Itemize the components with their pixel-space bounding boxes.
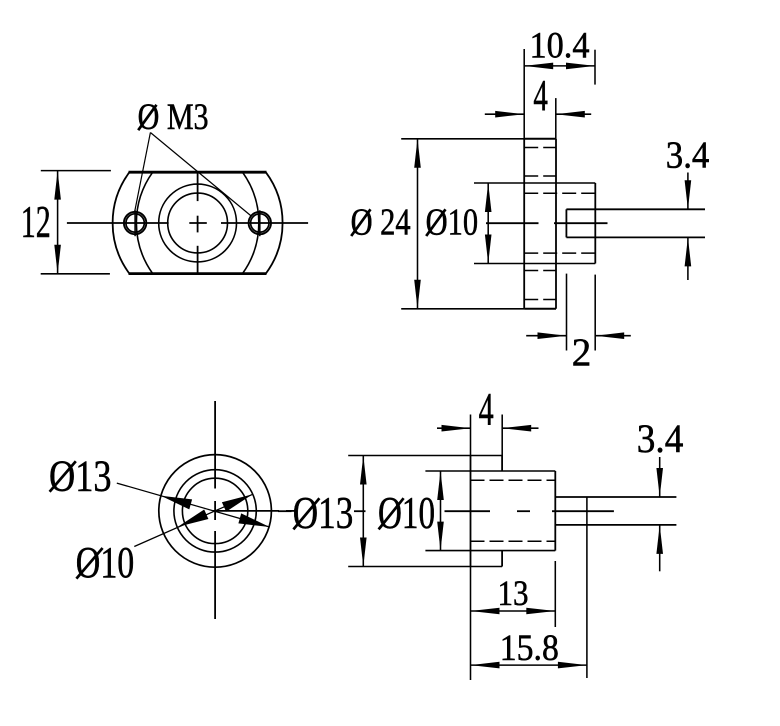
side view 2: centerline dash a bbox=[278, 510, 292, 512]
dim 4 bottom: right tail bbox=[502, 427, 538, 429]
front view: vertical centerline center dash bbox=[197, 216, 199, 233]
dim 3.4 bottom: down arrow bbox=[656, 468, 663, 497]
dim 12: top extension line bbox=[41, 170, 111, 172]
dim D13 bottom: bottom arrow bbox=[360, 538, 367, 567]
dim D24: bottom extension line bbox=[401, 308, 524, 310]
svg-text:3.4: 3.4 bbox=[666, 134, 710, 176]
label D13 left: arrow upper-left bbox=[161, 496, 192, 510]
front view: horizontal centerline center dash bbox=[189, 222, 207, 224]
svg-text:12: 12 bbox=[21, 196, 51, 247]
dim 4 bottom: right extension line bbox=[501, 415, 503, 456]
dim 4 bottom: left tail bbox=[437, 427, 471, 429]
dim 3.4 top: lower segment bbox=[687, 237, 689, 280]
dim D24: dimension line bbox=[417, 139, 419, 309]
side view: centerline right segment bbox=[554, 222, 608, 224]
dim 3.4 bottom: lower segment bbox=[659, 525, 661, 571]
front view: inner left arc of flange crescent bbox=[136, 172, 152, 273]
svg-text:3.4: 3.4 bbox=[637, 416, 684, 461]
svg-text:O10: O10 bbox=[76, 539, 135, 587]
side view: M3 hole hidden line bottom-1 bbox=[524, 270, 556, 272]
side view 2: screw shaft bottom line bbox=[555, 524, 676, 526]
dim 4 top: left tail bbox=[485, 113, 524, 115]
dim 4 top: right tail bbox=[556, 113, 591, 115]
svg-text:15.8: 15.8 bbox=[500, 627, 559, 668]
dim D13 bottom: top arrow bbox=[360, 456, 367, 485]
dim 10.4: left arrow bbox=[524, 63, 553, 70]
side view 2: flange top edge with D13 extension bbox=[348, 455, 502, 457]
dim 3.4 top: upper segment bbox=[687, 173, 689, 210]
front view: horizontal centerline right segment bbox=[221, 222, 308, 224]
dim 4 bottom: left extension line bbox=[470, 415, 472, 456]
svg-text:4: 4 bbox=[479, 384, 494, 436]
side view: screw end face bbox=[565, 209, 567, 237]
dim 4 bottom: right arrow bbox=[502, 425, 531, 432]
dim D24: bottom arrow bbox=[414, 280, 421, 309]
dim D10 bottom: top arrow bbox=[437, 471, 444, 500]
dim 4 bottom: left arrow bbox=[442, 425, 471, 432]
dim 12: bottom arrow bbox=[54, 245, 61, 274]
side view: bore hidden line bottom bbox=[524, 252, 595, 254]
front view: right M3 hole vertical tick bbox=[259, 210, 261, 236]
front view: right M3 hole inner circle bbox=[251, 214, 269, 232]
round view: middle circle D10 bbox=[174, 470, 256, 552]
side view 2: body bottom edge with D10 extension bbox=[425, 550, 555, 552]
dim 2: right tail bbox=[595, 335, 631, 337]
side view: centerline left segment bbox=[486, 222, 539, 224]
side view: bore hidden line top bbox=[524, 192, 595, 194]
dim 2: right extension line bbox=[594, 275, 596, 351]
dim 4 top: left arrow bbox=[495, 111, 524, 118]
dim 13: right arrow bbox=[526, 608, 555, 615]
front view: horizontal centerline left segment bbox=[67, 222, 169, 224]
dim 13: left arrow bbox=[471, 608, 500, 615]
side view 2: step top vertical bbox=[501, 456, 503, 472]
dim D10 bottom: dimension line bbox=[440, 471, 442, 551]
round view: horizontal centerline right segment bbox=[213, 510, 279, 512]
dim D10 top: dimension line bbox=[487, 183, 489, 264]
dim 10.4: right arrow bbox=[566, 63, 595, 70]
dim 13: left extension line bbox=[470, 567, 472, 628]
round view: vertical centerline bottom segment bbox=[214, 531, 216, 619]
dim 13: right extension line bbox=[554, 561, 556, 627]
side view 2: bore hidden line bottom bbox=[471, 540, 556, 542]
side view 2: body top edge with D10 extension bbox=[425, 470, 555, 472]
svg-text:O13: O13 bbox=[293, 488, 354, 538]
dim 15.8: right arrow bbox=[558, 662, 587, 669]
side view: hub right edge bbox=[594, 183, 596, 264]
side view: flange bottom edge bbox=[524, 308, 556, 310]
dim 2: left extension line bbox=[566, 274, 568, 351]
front view: left M3 hole inner circle bbox=[126, 214, 144, 232]
dim 12: top arrow bbox=[54, 171, 61, 200]
dim 15.8: left arrow bbox=[471, 662, 500, 669]
round view: vertical centerline center dash bbox=[214, 501, 216, 520]
dim D10 top: bottom arrow bbox=[485, 235, 492, 264]
dim 15.8: dimension line bbox=[471, 664, 587, 666]
front view: hub circle D13 bbox=[159, 184, 237, 262]
front view: left M3 hole vertical tick bbox=[134, 210, 136, 236]
label D10 left: arrow lower-left bbox=[178, 510, 209, 527]
dim 3.4 bottom: upper segment bbox=[659, 457, 661, 497]
svg-text:10.4: 10.4 bbox=[530, 24, 590, 65]
dim D10 bottom: bottom arrow bbox=[437, 522, 444, 551]
svg-text:O10: O10 bbox=[378, 488, 435, 538]
side view 2: centerline dash b bbox=[354, 510, 366, 512]
dim D24: top arrow bbox=[414, 139, 421, 168]
dim 15.8: left extension line bbox=[470, 627, 472, 680]
svg-text:13: 13 bbox=[498, 573, 529, 613]
side view 2: step bottom vertical bbox=[501, 551, 503, 567]
label D M3: leader to right hole bbox=[150, 133, 251, 217]
side view: flange top edge bbox=[524, 138, 556, 140]
dim 2: left tail bbox=[526, 335, 566, 337]
dim D13 bottom: dimension line bbox=[362, 456, 364, 567]
dim 12: bottom extension line bbox=[41, 273, 110, 275]
round view: outer circle D13 bbox=[159, 455, 272, 568]
dim 15.8: right extension line bbox=[586, 497, 588, 678]
side view 2: flange bottom edge with D13 extension bbox=[348, 566, 502, 568]
front view: left M3 hole outer circle bbox=[124, 212, 146, 234]
round view: vertical centerline top segment bbox=[214, 401, 216, 489]
dim 10.4: right extension line bbox=[594, 50, 596, 85]
svg-text:O10: O10 bbox=[426, 202, 479, 244]
side view 2: screw shaft top line bbox=[555, 496, 676, 498]
front view: inner right arc of flange crescent bbox=[243, 172, 259, 273]
front view: outer flange right arc (R85) bbox=[266, 172, 283, 273]
label D10 left: arrow upper-right bbox=[222, 494, 253, 511]
dim D24: top extension line bbox=[401, 138, 524, 140]
round view: bore circle bbox=[182, 478, 247, 543]
front view: bottom flat of flange bbox=[129, 272, 267, 275]
side view: screw shaft top line bbox=[566, 208, 705, 210]
front view: vertical centerline bottom segment bbox=[197, 246, 199, 274]
side view 2: flange left face bbox=[470, 456, 472, 567]
side view: flange left edge bbox=[523, 139, 525, 309]
side view 2: centerline dash e bbox=[552, 510, 614, 512]
side view 2: centerline dash c bbox=[445, 510, 491, 512]
label D13 left: leader line bbox=[117, 483, 270, 527]
front view: top flat of flange bbox=[129, 171, 267, 174]
side view: hub bottom edge with D10 extension bbox=[474, 263, 595, 265]
svg-text:4: 4 bbox=[533, 70, 548, 120]
dim 12: dimension line bbox=[57, 171, 59, 274]
dim 3.4 bottom: up arrow bbox=[656, 525, 663, 554]
side view: M3 hole hidden line bottom-2 bbox=[524, 299, 556, 301]
svg-text:2: 2 bbox=[572, 332, 592, 374]
dim 10.4: dimension line bbox=[524, 65, 595, 67]
label D13 left: arrow lower-right bbox=[238, 513, 269, 527]
side view 2: body right edge bbox=[554, 471, 556, 551]
dim 4 top: right extension line bbox=[555, 98, 557, 139]
front view: vertical centerline top segment bbox=[197, 172, 199, 201]
front view: outer flange left arc (R85) bbox=[113, 172, 130, 273]
side view: hub top edge with D10 extension bbox=[474, 182, 595, 184]
round view: horizontal centerline dash right bbox=[286, 510, 295, 512]
front view: right M3 hole outer circle bbox=[249, 212, 271, 234]
side view 2: bore hidden line top bbox=[471, 479, 556, 481]
dim 4 top: right arrow bbox=[556, 111, 585, 118]
dim 3.4 top: down arrow bbox=[685, 180, 692, 209]
dim D10 top: top arrow bbox=[485, 183, 492, 212]
dim 2: right arrow bbox=[595, 332, 624, 339]
side view: flange right edge bbox=[555, 139, 557, 309]
side view: M3 hole hidden line top-1 bbox=[524, 147, 556, 149]
dim 13: dimension line bbox=[471, 610, 556, 612]
label D10 left: leader line bbox=[134, 494, 252, 546]
dim 2: left arrow bbox=[538, 332, 567, 339]
front view: bore circle D10 bbox=[168, 193, 228, 253]
side view: M3 hole hidden line top-2 bbox=[524, 175, 556, 177]
dim 3.4 top: up arrow bbox=[685, 237, 692, 266]
side view: screw shaft bottom line bbox=[566, 236, 705, 238]
svg-text:O13: O13 bbox=[49, 452, 112, 500]
side view 2: centerline dash d bbox=[517, 510, 530, 512]
dim 10.4: left extension line bbox=[523, 49, 525, 139]
label D M3: leader to left hole bbox=[135, 133, 151, 213]
